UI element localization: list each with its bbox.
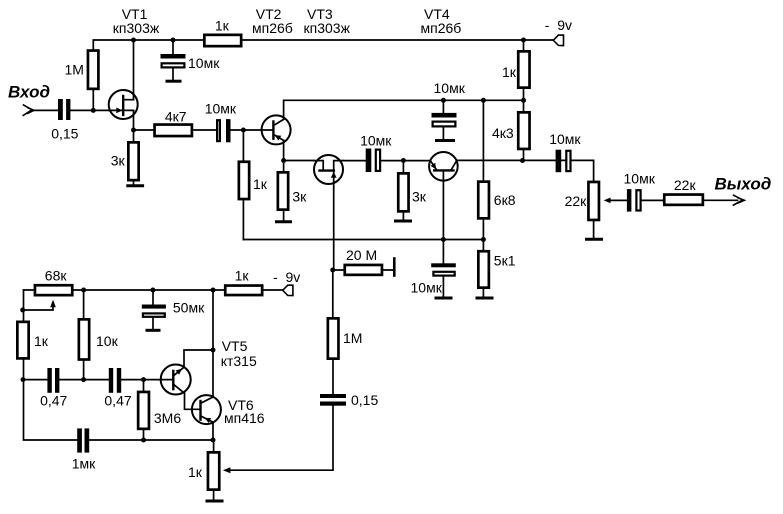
svg-text:мп26б: мп26б [421, 20, 462, 36]
svg-text:1к: 1к [253, 176, 268, 192]
capacitor C4 10mk electrolytic (supply node) [432, 100, 457, 139]
transistor VT1 [109, 90, 138, 119]
svg-text:Выход: Выход [715, 175, 772, 194]
node: VT4 base / bus [441, 237, 446, 242]
resistor 1k (osc supply) [225, 286, 262, 296]
node: VT1 drain / rail [131, 38, 136, 43]
ground (3k VT1) [126, 184, 144, 187]
node: VT5 emitter / x213 [211, 348, 216, 353]
resistor 3k (VT4 input) [398, 173, 408, 211]
svg-text:6к8: 6к8 [494, 192, 516, 208]
transistor VT4 [429, 152, 458, 181]
wire: trimmer leads [213, 440, 215, 499]
node: 3M6 / osc bottom [141, 438, 146, 443]
capacitor C7 10mk electrolytic (to pot) [556, 150, 571, 173]
ground (C6) [435, 297, 453, 300]
svg-text:3к: 3к [292, 189, 307, 205]
capacitor C3 10mk electrolytic [217, 119, 230, 142]
resistor 4k7 [155, 125, 192, 137]
node: 10k / osc rail [81, 288, 86, 293]
wire: oscillator left rail [24, 290, 78, 440]
transistor VT6 [192, 395, 221, 424]
svg-text:10мк: 10мк [549, 131, 581, 147]
node: VT2 base / 1k [241, 128, 246, 133]
transistor VT2 [262, 115, 291, 144]
ground (pot) [585, 238, 603, 241]
ground (50mk) [146, 329, 161, 332]
wire: C5 to VT4 emitter [381, 160, 430, 162]
wire: top supply rail [93, 40, 553, 49]
node: C4 / supply wire [441, 98, 446, 103]
node: 4k3 / output wire [520, 158, 525, 163]
wire: phase network to VT5 base [121, 379, 173, 381]
svg-text:кп303ж: кп303ж [304, 20, 351, 36]
node: 6k8 branch / supply wire [481, 98, 486, 103]
ground (trimmer) [206, 500, 224, 503]
resistor 6k8 [478, 182, 489, 219]
svg-text:10мк: 10мк [434, 80, 466, 96]
svg-text:4к7: 4к7 [165, 109, 187, 125]
wiper arrow (68k) [50, 300, 56, 308]
node: x213 branch / osc rail [211, 288, 216, 293]
node: left rail / phase wire [21, 377, 26, 382]
capacitor 0,47 (first) [47, 368, 59, 393]
wire: oscillator top rail [24, 289, 283, 291]
svg-text:10к: 10к [96, 333, 119, 349]
capacitor C2 10mk electrolytic [161, 40, 186, 80]
svg-text:5к1: 5к1 [494, 253, 516, 269]
svg-text:1к: 1к [34, 333, 49, 349]
resistor 1M [88, 51, 98, 89]
node: 6k8-5k1 / bus [481, 237, 486, 242]
svg-text:0,15: 0,15 [51, 126, 78, 142]
wire: C 0,15 to trimmer wiper [230, 406, 333, 471]
wire: VT3 gate [333, 184, 335, 270]
wire: R 1k base divider leads [242, 130, 244, 240]
wire: C1 to VT1 gate [70, 109, 109, 111]
wire: 6k8 branch from supply [482, 100, 484, 239]
node: 50mk / osc rail [150, 288, 155, 293]
resistor 68k (trimmer) [35, 285, 72, 295]
power terminal -9v (osc) [283, 285, 293, 295]
node: 1k right / rail [521, 38, 526, 43]
node: VT2 emitter / 3k [281, 158, 286, 163]
svg-text:20 М: 20 М [346, 247, 377, 263]
power terminal -9v (top) [553, 35, 563, 46]
svg-text:кт315: кт315 [221, 353, 257, 369]
ground (3k VT2) [275, 220, 292, 223]
resistor 1M (gate leak) [328, 318, 339, 358]
resistor 3M6 [138, 392, 149, 429]
resistor 1k (VT2 base) [239, 162, 249, 199]
resistor 3k (VT2 emitter) [278, 172, 288, 209]
svg-text:1к: 1к [502, 64, 517, 80]
svg-text:10мк: 10мк [360, 132, 392, 148]
svg-text:4к3: 4к3 [492, 125, 514, 141]
svg-text:1к: 1к [235, 267, 250, 283]
node: 1M / gate wire [91, 108, 96, 113]
node: VT1 source / 4k7 [131, 128, 136, 133]
wire: VT5 collector to VT6 base [185, 393, 201, 409]
svg-text:1к: 1к [188, 464, 203, 480]
wire: R 5k1 leads [482, 240, 484, 297]
svg-text:0,47: 0,47 [40, 393, 67, 409]
svg-text:VT5: VT5 [222, 338, 248, 354]
svg-text:3к: 3к [412, 189, 427, 205]
wire: supply branch x213 [212, 290, 214, 440]
wire: R 1k / R 4k3 leads [523, 40, 525, 161]
capacitor C1 0,15 [58, 99, 70, 120]
svg-text:10мк: 10мк [411, 280, 443, 296]
ground (3k VT4) [394, 220, 412, 223]
wire: input to C1 [33, 109, 58, 111]
wire: R 3k emitter leads [283, 161, 285, 221]
potentiometer 22k [588, 182, 599, 220]
node: supply wire / 1k-4k3 [521, 98, 526, 103]
wire: oscillator bottom [89, 439, 213, 441]
wire: VT2 collector to supply node [284, 100, 524, 119]
wire: C3 to VT2 base [231, 129, 274, 131]
wire: C8 to R 22k [642, 199, 663, 201]
resistor 1k (osc left) [17, 322, 28, 359]
wire: VT3 to C5 [343, 160, 366, 162]
wire: phase network mid [59, 379, 108, 381]
svg-text:10мк: 10мк [205, 100, 237, 116]
transistor VT3 [314, 155, 343, 184]
capacitor C8 10mk electrolytic (output) [627, 189, 641, 212]
node: 3M6 / phase wire [141, 377, 146, 382]
wire: R 20M leads [333, 269, 393, 271]
wire: VT4 base lead [442, 170, 444, 239]
svg-text:0,47: 0,47 [104, 393, 131, 409]
node: VT6 emitter / trimmer [211, 438, 216, 443]
resistor 22k (output) [664, 195, 703, 205]
wire: VT4 collector to pot [457, 160, 594, 180]
svg-text:мп26б: мп26б [252, 20, 293, 36]
wire: pot wiper to C8 [610, 199, 627, 201]
potentiometer 1k (trimmer) [208, 452, 219, 489]
svg-text:- 9v: - 9v [273, 269, 300, 285]
capacitor 50mk electrolytic [142, 290, 166, 329]
resistor 20M [345, 257, 396, 277]
wire: source node to R 4k7 [134, 129, 156, 131]
svg-text:1мк: 1мк [72, 456, 96, 472]
svg-text:3М6: 3М6 [154, 410, 181, 426]
capacitor 1mk [77, 428, 89, 452]
wire: VT2 emitter lead [283, 140, 285, 160]
resistor 4k3 [518, 112, 529, 149]
ground (5k1) [476, 297, 494, 300]
resistor 10k [79, 319, 89, 359]
wiper arrow (1k trimmer) [223, 467, 231, 473]
resistor 1k (top rail) [204, 35, 241, 46]
ground (C2) [166, 80, 182, 83]
wire: VT1 drain lead [133, 40, 135, 100]
svg-text:22к: 22к [674, 177, 697, 193]
ground (C4) [435, 139, 455, 142]
node: C2 / rail [171, 38, 176, 43]
wire: output [704, 199, 737, 201]
node: 68k wiper / left rail [20, 308, 25, 313]
svg-text:Вход: Вход [8, 83, 50, 102]
transistor VT5 [161, 365, 191, 395]
svg-text:кп303ж: кп303ж [113, 20, 160, 36]
node: gate / 20M / 1M [330, 268, 335, 273]
wire: R 10k leads [83, 290, 85, 380]
svg-text:22к: 22к [565, 193, 588, 209]
node: 3k / VT4 emitter wire [401, 158, 406, 163]
svg-text:3к: 3к [111, 153, 126, 169]
svg-text:1М: 1М [343, 330, 362, 346]
svg-text:68к: 68к [45, 267, 68, 283]
wire: emitter node to VT3 [284, 160, 314, 162]
resistor 5k1 [478, 251, 489, 287]
capacitor C5 10mk electrolytic [366, 149, 380, 173]
wire: R 4k7 to C3 [194, 129, 216, 131]
svg-text:- 9v: - 9v [545, 17, 572, 33]
resistor 3k (VT1 source) [128, 130, 138, 185]
svg-text:10мк: 10мк [188, 55, 220, 71]
wire: R 3k (VT4 input) leads [402, 161, 404, 220]
capacitor C6 10mk electrolytic (base bus) [431, 240, 456, 297]
resistor 1k (right) [518, 51, 529, 87]
wire: VT1 source lead [133, 110, 135, 130]
wire: VT5 emitter to supply branch [184, 350, 213, 367]
wire: base bus [243, 239, 483, 241]
svg-text:1к: 1к [215, 18, 230, 34]
capacitor 0,15 (gate) [320, 394, 346, 406]
node: 10k / phase wire [81, 377, 86, 382]
svg-text:0,15: 0,15 [351, 392, 378, 408]
wire: R 1M bottom lead [92, 90, 94, 110]
svg-text:1М: 1М [65, 62, 84, 78]
svg-text:мп416: мп416 [224, 410, 265, 426]
output terminal [733, 195, 745, 206]
svg-text:10мк: 10мк [624, 170, 656, 186]
wire: pot bottom lead [593, 221, 595, 238]
wiper arrow (22k pot) [604, 198, 611, 204]
input terminal [23, 105, 34, 116]
wire: phase network left [23, 379, 47, 381]
wire: R 3M6 leads [143, 380, 145, 440]
wire: 68k wiper [23, 307, 53, 311]
svg-text:50мк: 50мк [173, 299, 205, 315]
capacitor 0,47 (second) [109, 368, 121, 393]
wire: R 1M gate leak leads [332, 270, 334, 394]
